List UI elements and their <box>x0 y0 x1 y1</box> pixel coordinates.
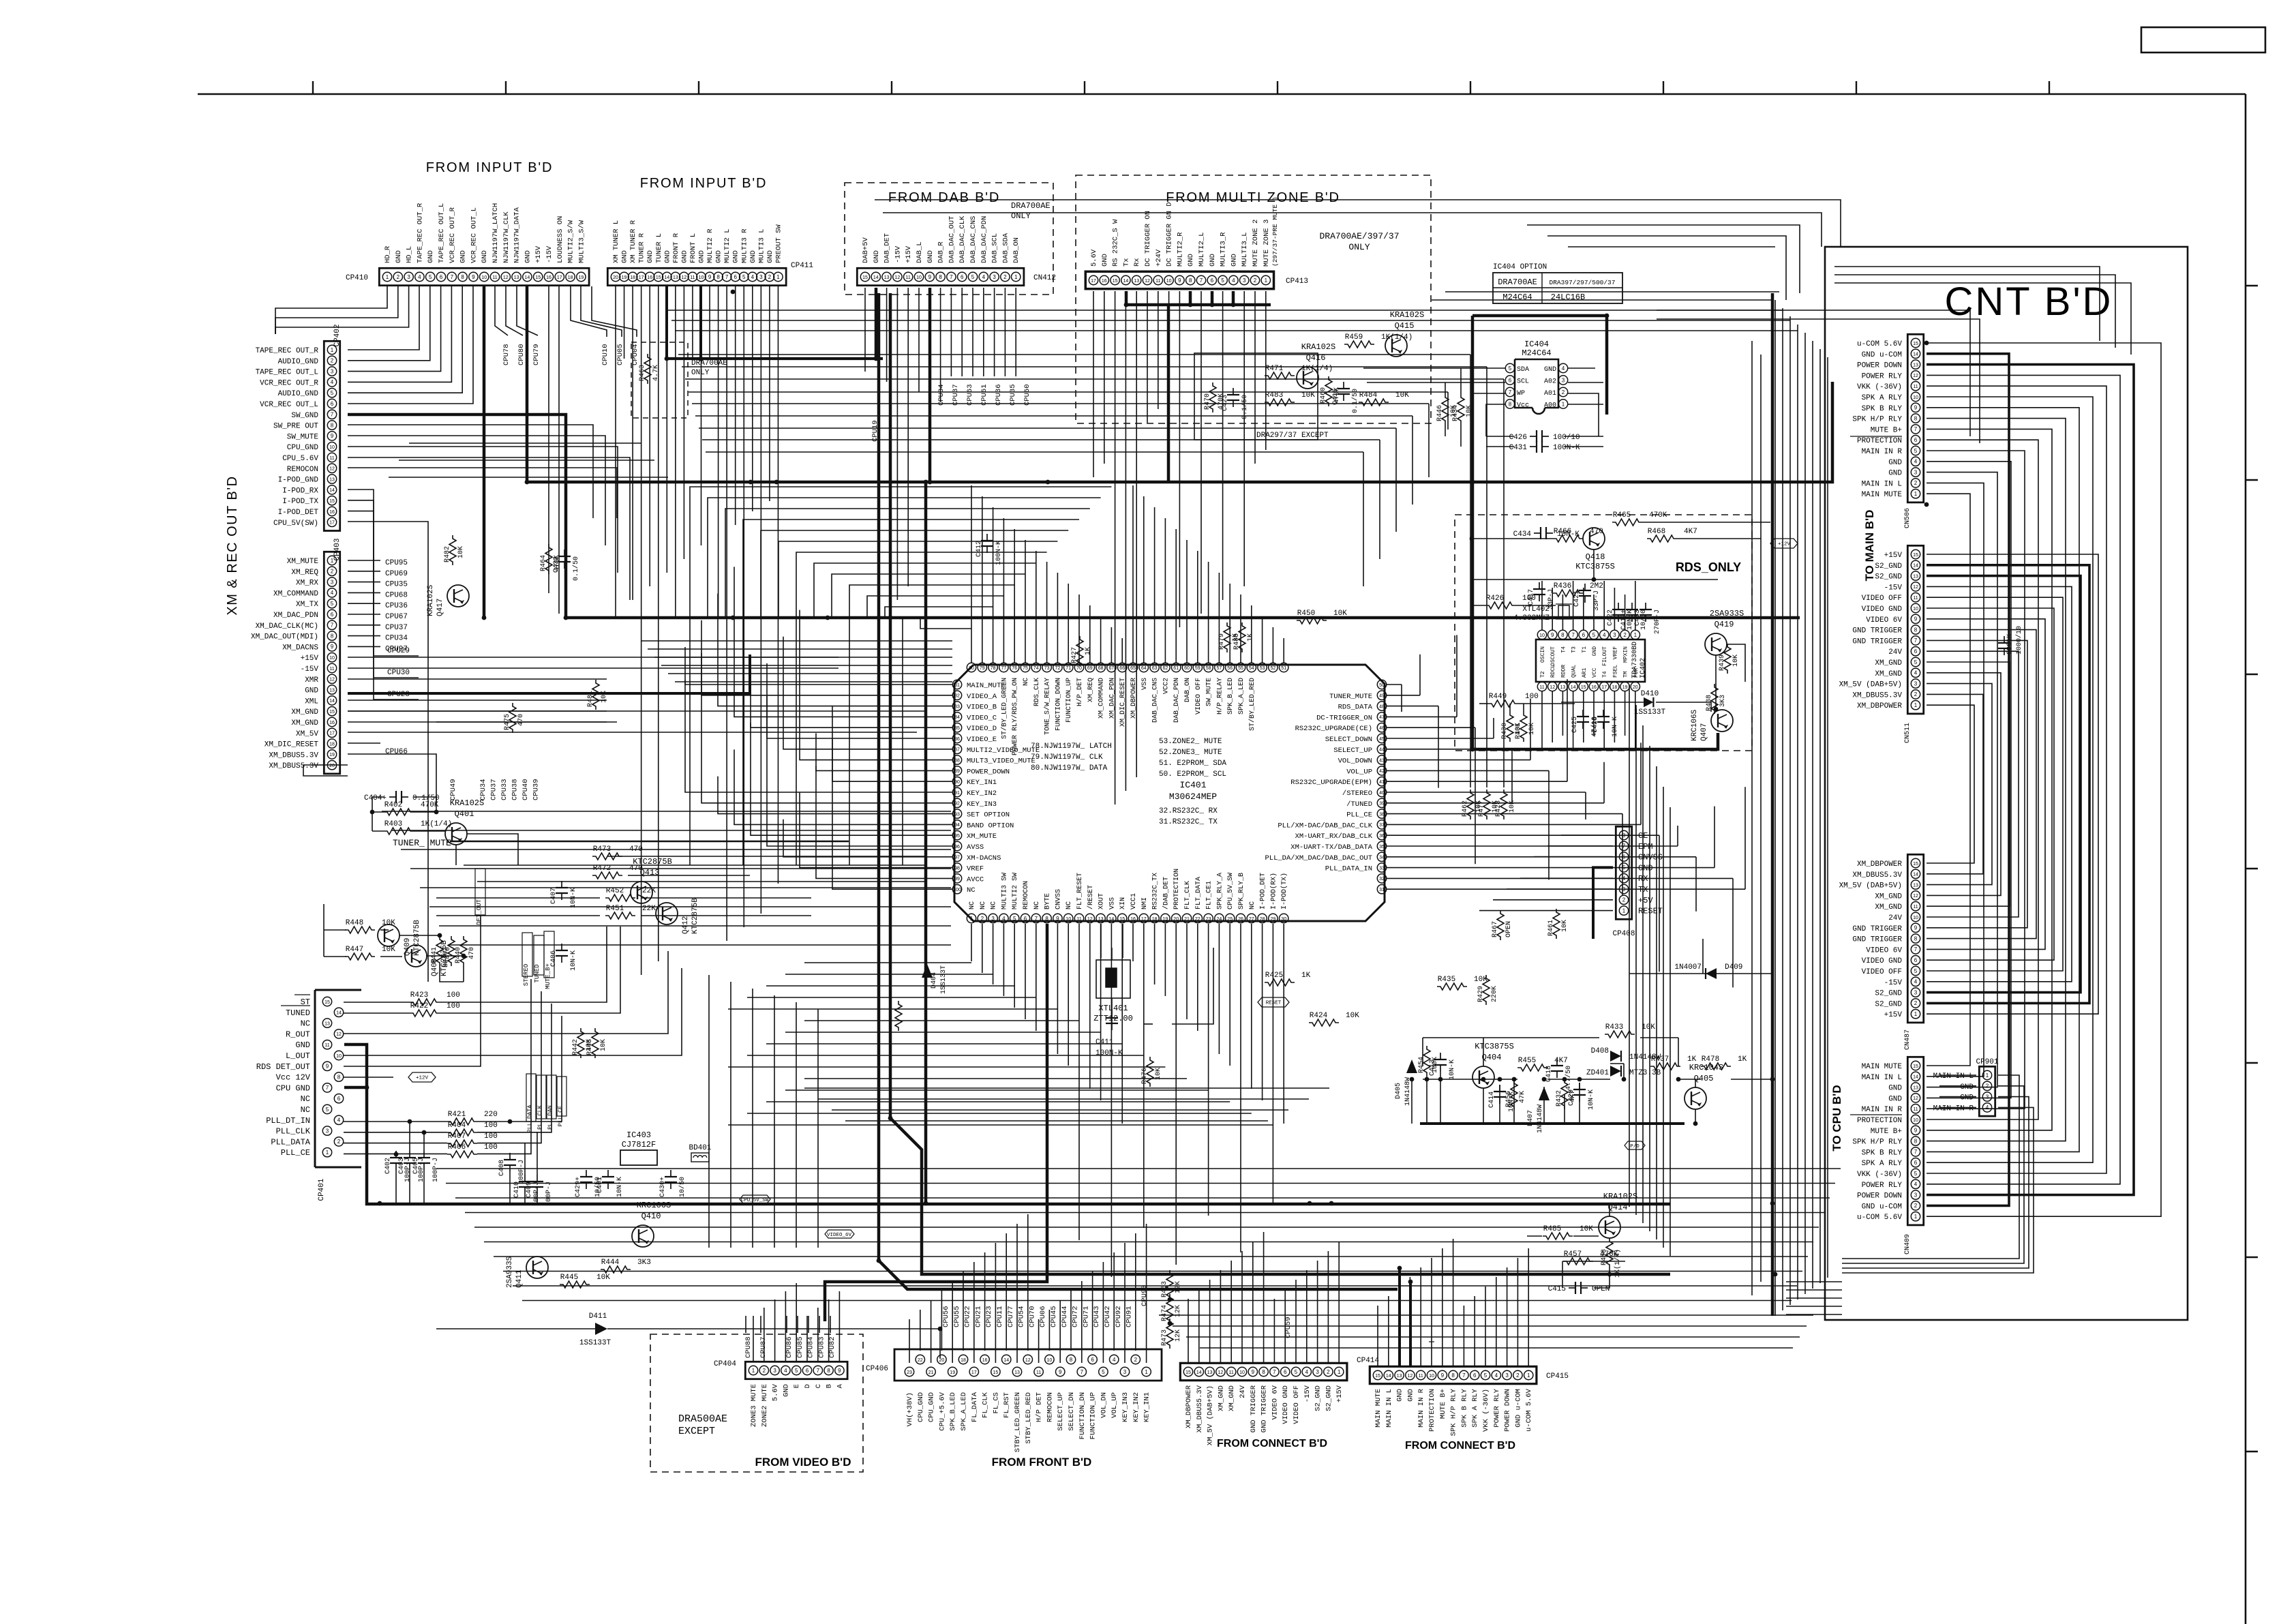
svg-text:MAIN MUTE: MAIN MUTE <box>1374 1389 1383 1428</box>
wire <box>1603 762 1605 803</box>
svg-text:T4: T4 <box>1560 646 1567 653</box>
wire <box>1445 382 1446 394</box>
svg-text:PLL_CLK: PLL_CLK <box>276 1127 311 1137</box>
wire <box>1657 319 1980 443</box>
svg-text:85: 85 <box>954 726 960 731</box>
svg-text:16: 16 <box>1130 917 1136 922</box>
junction <box>924 480 928 485</box>
svg-text:DRA500AE: DRA500AE <box>678 1413 727 1425</box>
wire <box>344 1153 447 1154</box>
svg-text:SPK B RLY: SPK B RLY <box>1862 1149 1903 1157</box>
svg-text:R447: R447 <box>346 946 363 954</box>
svg-text:VCR_REC OUT_L: VCR_REC OUT_L <box>260 401 318 409</box>
wire <box>1547 236 1786 300</box>
wire <box>348 625 380 626</box>
capacitor C411 100N-K <box>1111 1011 1113 1018</box>
svg-text:34: 34 <box>1379 856 1385 860</box>
svg-text:GND: GND <box>295 1040 310 1050</box>
svg-text:DAB_SCL: DAB_SCL <box>991 233 999 263</box>
svg-text:2: 2 <box>1327 1369 1330 1375</box>
svg-text:4: 4 <box>1986 1104 1989 1111</box>
svg-text:POWER DOWN: POWER DOWN <box>1857 1192 1902 1201</box>
svg-text:KEY_IN3: KEY_IN3 <box>967 800 997 809</box>
svg-text:D408: D408 <box>1591 1047 1609 1055</box>
svg-text:GND: GND <box>1888 1095 1902 1103</box>
svg-text:27: 27 <box>1249 917 1254 922</box>
svg-text:90: 90 <box>954 780 960 785</box>
resistor R406 100 <box>447 1151 477 1158</box>
wire <box>1493 899 1613 901</box>
svg-text:10: 10 <box>329 656 335 661</box>
svg-text:1: 1 <box>1145 1369 1148 1375</box>
wire <box>1014 529 1015 663</box>
wire <box>903 618 982 865</box>
svg-text:7: 7 <box>950 274 953 280</box>
svg-text:NC: NC <box>1066 901 1073 909</box>
wire <box>1200 1347 1793 1349</box>
transistor Q407 KRC106S <box>1711 710 1733 732</box>
wire <box>766 1101 1230 1102</box>
wire <box>1241 1251 1243 1363</box>
svg-text:10: 10 <box>1166 279 1172 284</box>
svg-text:FLT_RESET: FLT_RESET <box>1076 873 1084 909</box>
svg-text:C428: C428 <box>1592 717 1599 733</box>
svg-text:14: 14 <box>1913 352 1918 357</box>
wire <box>1751 341 1753 1295</box>
svg-text:FROM CONNECT B'D: FROM CONNECT B'D <box>1405 1440 1515 1452</box>
wire <box>348 646 380 647</box>
resistor R437 1K <box>1650 1063 1680 1070</box>
svg-text:VCC2: VCC2 <box>1162 678 1170 694</box>
svg-text:89: 89 <box>954 769 960 774</box>
wire <box>344 1121 447 1122</box>
svg-text:VCR_REC OUT_R: VCR_REC OUT_R <box>260 379 318 387</box>
svg-text:+24V: +24V <box>1155 249 1163 267</box>
svg-text:GND u-COM: GND u-COM <box>1514 1389 1522 1428</box>
svg-text:R482: R482 <box>444 546 451 562</box>
wire <box>1927 483 1984 1076</box>
svg-text:FLT_CLK: FLT_CLK <box>1184 881 1192 909</box>
wire <box>463 966 464 982</box>
svg-text:POWER RLY/RDS_PW_ON: POWER RLY/RDS_PW_ON <box>1011 678 1019 755</box>
svg-text:XM TUNER R: XM TUNER R <box>629 220 637 263</box>
wire <box>1399 1287 1400 1366</box>
svg-text:R467: R467 <box>1492 921 1499 937</box>
svg-text:15: 15 <box>1913 1064 1918 1069</box>
wire <box>324 929 346 931</box>
svg-text:A00: A00 <box>1544 402 1556 410</box>
svg-text:XM_DBPOWER: XM_DBPOWER <box>1857 702 1902 710</box>
wire <box>607 856 926 857</box>
wire <box>1552 691 1553 742</box>
svg-text:DC TRIGGER ON: DC TRIGGER ON <box>1144 211 1152 267</box>
wire <box>743 520 1079 865</box>
wire <box>436 1328 595 1329</box>
wire <box>436 721 617 723</box>
wire <box>477 1004 552 1132</box>
wire <box>348 500 419 678</box>
wire <box>828 1299 830 1362</box>
wire <box>1367 382 1505 383</box>
wire <box>708 498 1101 618</box>
wire <box>548 286 549 593</box>
svg-text:CP413: CP413 <box>1286 277 1308 286</box>
wire <box>685 378 1504 380</box>
svg-text:Q415: Q415 <box>1395 321 1415 331</box>
svg-text:KTC3875S: KTC3875S <box>1475 1042 1514 1051</box>
svg-text:CPU43: CPU43 <box>1093 1306 1101 1327</box>
svg-text:R485: R485 <box>1543 1225 1561 1233</box>
svg-text:R_OUT: R_OUT <box>286 1029 310 1039</box>
resistor R475 470 <box>509 703 516 733</box>
svg-text:SPK_RLY_A: SPK_RLY_A <box>1216 873 1224 909</box>
svg-text:10N-K: 10N-K <box>1588 1089 1595 1110</box>
svg-text:RS232C_TX: RS232C_TX <box>1152 873 1160 909</box>
wire <box>783 819 952 857</box>
wire <box>661 665 952 666</box>
svg-text:DAB_R: DAB_R <box>937 241 946 263</box>
svg-text:R476: R476 <box>1141 1068 1149 1084</box>
wire <box>1663 787 1664 1248</box>
svg-text:OPEN: OPEN <box>1592 1285 1610 1293</box>
svg-text:10: 10 <box>1913 607 1918 612</box>
wire <box>1211 291 1214 305</box>
svg-text:1: 1 <box>776 274 780 280</box>
wire <box>785 1089 1209 1091</box>
wire <box>1927 397 2093 1162</box>
wire <box>1004 288 1006 376</box>
svg-text:VIDEO OFF: VIDEO OFF <box>1862 595 1902 603</box>
svg-text:MAIN IN L: MAIN IN L <box>1385 1389 1393 1428</box>
svg-text:15: 15 <box>535 275 541 280</box>
resistor R463 4.7K <box>644 354 651 384</box>
wire <box>1927 494 1970 1066</box>
svg-text:CN409: CN409 <box>1904 1234 1912 1254</box>
capacitor C420 10N-K <box>1579 1083 1580 1089</box>
svg-text:5: 5 <box>1221 277 1224 284</box>
svg-text:GND: GND <box>1101 254 1109 267</box>
svg-text:4: 4 <box>1002 916 1006 922</box>
svg-text:R458: R458 <box>1601 1249 1608 1265</box>
svg-text:R478: R478 <box>1702 1055 1719 1064</box>
svg-text:GND: GND <box>1888 470 1902 478</box>
wire <box>1189 291 1192 305</box>
svg-text:19: 19 <box>622 275 627 280</box>
wire <box>1472 605 1485 606</box>
svg-text:FUNCTION_UP: FUNCTION_UP <box>1089 1392 1098 1439</box>
svg-text:5: 5 <box>971 274 975 280</box>
wire <box>348 286 473 404</box>
wire <box>1939 1107 1976 1108</box>
svg-text:CN412: CN412 <box>1033 274 1056 282</box>
svg-text:VIDEO_D: VIDEO_D <box>967 725 997 733</box>
wire <box>275 286 409 334</box>
junction <box>370 810 375 815</box>
svg-text:R425: R425 <box>1265 972 1283 980</box>
wire <box>1387 867 1715 869</box>
svg-text:C408: C408 <box>498 1160 506 1176</box>
svg-text:XM-DACNS: XM-DACNS <box>967 854 1001 862</box>
wire <box>1146 1224 1147 1363</box>
wire <box>1186 924 1188 1019</box>
wire <box>701 653 952 803</box>
wire <box>1834 283 2131 355</box>
wire <box>1445 291 1779 292</box>
wire <box>474 1227 1819 1228</box>
svg-text:OSCIN: OSCIN <box>1540 646 1546 663</box>
svg-text:3K3: 3K3 <box>1719 695 1727 707</box>
wire <box>1568 382 1603 383</box>
wire <box>1927 462 2011 1098</box>
wire <box>409 1122 410 1151</box>
wire <box>783 637 952 749</box>
wire <box>1472 538 1553 539</box>
svg-text:R430: R430 <box>1501 723 1509 739</box>
svg-text:2: 2 <box>1914 480 1918 486</box>
svg-text:3: 3 <box>1914 469 1918 475</box>
wire <box>1283 924 1284 1124</box>
resistor R439b <box>895 1001 902 1031</box>
wire <box>1387 738 1494 739</box>
svg-text:10: 10 <box>699 275 704 280</box>
svg-text:GND: GND <box>766 250 774 263</box>
wire <box>607 1329 940 1358</box>
svg-text:16: 16 <box>329 721 335 725</box>
wire <box>1419 655 1421 695</box>
svg-text:24: 24 <box>1217 917 1222 922</box>
wire <box>730 982 731 1248</box>
wire <box>1760 355 1762 1282</box>
svg-text:FROM INPUT B'D: FROM INPUT B'D <box>640 176 767 191</box>
svg-text:TUNED: TUNED <box>534 964 541 982</box>
border tick <box>1856 81 1857 94</box>
svg-text:12: 12 <box>329 467 335 472</box>
transistor Q408 KTC2875B <box>405 945 427 967</box>
wire <box>785 1291 786 1362</box>
svg-text:CPU45: CPU45 <box>1050 1306 1058 1327</box>
wire <box>1447 392 1449 430</box>
wire <box>1565 446 1603 447</box>
svg-text:XM_DBUS5.3V: XM_DBUS5.3V <box>269 762 318 770</box>
svg-text:NC: NC <box>1249 901 1256 909</box>
svg-text:13: 13 <box>324 1021 330 1026</box>
wire <box>766 985 1014 987</box>
svg-text:100: 100 <box>484 1122 498 1130</box>
wire <box>1460 368 1462 394</box>
svg-text:SPK A RLY: SPK A RLY <box>1471 1388 1479 1427</box>
wire <box>690 487 1111 865</box>
wire <box>372 797 373 831</box>
svg-text:53: 53 <box>1260 666 1265 671</box>
wire <box>1179 291 1180 627</box>
svg-text:C420: C420 <box>1568 1089 1575 1106</box>
wire <box>1479 703 1488 704</box>
svg-text:VIDEO_E: VIDEO_E <box>967 736 997 744</box>
junction <box>1308 1201 1312 1206</box>
junction <box>1408 1280 1413 1284</box>
wire <box>348 286 430 361</box>
svg-text:XM_GND: XM_GND <box>1875 892 1902 901</box>
wire <box>410 868 951 869</box>
svg-text:8: 8 <box>337 1074 341 1080</box>
wire <box>1440 1072 1441 1124</box>
svg-text:VH(+38V): VH(+38V) <box>906 1392 914 1426</box>
svg-text:98: 98 <box>954 866 960 871</box>
op-amp IC401 outline <box>954 665 1385 921</box>
wire <box>1593 867 1613 939</box>
wire <box>1474 1296 1475 1366</box>
svg-text:10: 10 <box>481 275 487 280</box>
capacitor C413 10N-K <box>1440 1053 1441 1059</box>
svg-text:Q418: Q418 <box>1586 552 1605 562</box>
svg-text:10K: 10K <box>1561 920 1569 932</box>
svg-text:AUDIO_GND: AUDIO_GND <box>278 358 319 366</box>
svg-text:5: 5 <box>1914 968 1918 974</box>
wire <box>1567 679 1568 781</box>
junction <box>1398 1266 1402 1271</box>
svg-text:SCL: SCL <box>1517 378 1529 386</box>
svg-text:CP406: CP406 <box>866 1365 888 1373</box>
wire <box>941 1291 942 1351</box>
svg-text:GND: GND <box>427 250 435 263</box>
svg-text:C416: C416 <box>1332 389 1340 405</box>
svg-text:6: 6 <box>1284 1369 1287 1375</box>
svg-text:A02: A02 <box>1544 378 1556 386</box>
svg-text:16: 16 <box>1591 685 1597 690</box>
svg-text:12: 12 <box>1408 1374 1413 1379</box>
resistor R468 4K7 <box>1647 535 1677 542</box>
svg-text:FUNCTION_UP: FUNCTION_UP <box>1066 678 1073 723</box>
svg-text:DRA700AE: DRA700AE <box>1498 277 1537 287</box>
capacitor C433 270P-J <box>1645 603 1646 610</box>
resistor R485 10K <box>1543 1233 1573 1239</box>
svg-text:1: 1 <box>752 1368 755 1374</box>
wire <box>1625 595 1626 630</box>
svg-text:56: 56 <box>1227 666 1233 671</box>
svg-text:PLL_CE: PLL_CE <box>1346 811 1372 819</box>
wire <box>1472 393 1505 394</box>
wire <box>1564 1094 1565 1124</box>
resistor R484 10K <box>1359 399 1389 406</box>
wire <box>1677 538 1761 539</box>
svg-text:VIDEO_B: VIDEO_B <box>967 704 997 712</box>
wire <box>918 288 920 392</box>
svg-text:VCC1: VCC1 <box>1130 893 1138 909</box>
wire <box>1702 939 1704 974</box>
dashed box R463 DRA700AE ONLY <box>631 342 688 418</box>
svg-text:CPU84: CPU84 <box>807 1336 815 1358</box>
wire <box>372 811 384 813</box>
wire <box>1363 452 1364 586</box>
svg-text:+15V: +15V <box>1335 1385 1344 1402</box>
svg-text:AVSS: AVSS <box>967 843 984 852</box>
wire <box>1842 1097 2029 1268</box>
wire <box>348 286 451 382</box>
wire <box>767 663 952 738</box>
wire <box>745 1316 746 1333</box>
svg-text:-15V: -15V <box>301 665 319 674</box>
svg-text:20: 20 <box>329 764 335 768</box>
transistor Q416 KRA102S <box>1297 367 1318 389</box>
wire <box>1939 1074 1976 1076</box>
wire <box>1583 588 1584 630</box>
wire <box>1463 1306 1464 1366</box>
wire <box>777 286 779 884</box>
resistor R461 10K <box>1553 909 1560 939</box>
net flag RESET <box>1258 997 1289 1007</box>
svg-text:CPU71: CPU71 <box>1082 1306 1090 1327</box>
svg-text:XM_5V: XM_5V <box>296 730 318 738</box>
svg-text:CPU_GND: CPU_GND <box>928 1392 936 1422</box>
wire <box>440 927 607 1002</box>
wire <box>1232 291 1235 305</box>
wire <box>1527 225 1800 293</box>
svg-text:RS 232C_S W: RS 232C_S W <box>1112 219 1120 267</box>
wire <box>1125 291 1126 791</box>
wire <box>1786 1314 1842 1315</box>
wire <box>1438 706 1439 788</box>
svg-text:R441: R441 <box>431 947 438 963</box>
svg-text:24V: 24V <box>1239 1385 1247 1398</box>
svg-text:RS232C_UPGRADE(EPM): RS232C_UPGRADE(EPM) <box>1290 779 1372 787</box>
wire <box>344 1012 410 1014</box>
svg-text:54: 54 <box>1249 666 1254 671</box>
border tick <box>891 81 892 94</box>
svg-text:9: 9 <box>1551 632 1554 638</box>
svg-text:6: 6 <box>1509 377 1512 383</box>
wire <box>1635 705 1637 1215</box>
wire <box>1568 246 1775 247</box>
wire <box>920 1310 921 1351</box>
wire <box>1927 662 2010 906</box>
svg-text:Vcc: Vcc <box>1517 402 1529 410</box>
wire <box>348 286 419 350</box>
wire <box>1927 684 1992 885</box>
wire <box>641 897 811 899</box>
connector CP413 <box>1085 271 1273 288</box>
wire <box>1927 586 2072 981</box>
svg-text:GND: GND <box>1544 366 1556 374</box>
wire <box>1387 695 1420 696</box>
svg-text:CP408: CP408 <box>1612 930 1635 938</box>
wire <box>1387 792 1586 793</box>
wire <box>1677 826 1678 846</box>
wire <box>819 1316 820 1333</box>
svg-text:Q405: Q405 <box>1694 1074 1714 1083</box>
svg-text:(297/37-PRE MUTE ): (297/37-PRE MUTE ) <box>1271 196 1279 267</box>
junction <box>1046 480 1051 485</box>
svg-text:9: 9 <box>1914 925 1918 931</box>
svg-text:/STEREO: /STEREO <box>1342 790 1372 798</box>
wire <box>1573 581 1574 630</box>
wire <box>1927 619 2045 950</box>
svg-text:11: 11 <box>329 456 334 461</box>
wire <box>760 1316 761 1333</box>
svg-text:99: 99 <box>954 877 960 882</box>
connector CN511 <box>1907 545 1923 714</box>
resistor R446 10K <box>1442 394 1449 424</box>
wire <box>808 1316 809 1333</box>
svg-text:GND: GND <box>1888 459 1902 467</box>
svg-text:6: 6 <box>806 1368 809 1374</box>
svg-text:BD401: BD401 <box>689 1144 711 1152</box>
svg-text:/RESET: /RESET <box>1087 885 1095 909</box>
wire <box>1609 1203 1610 1216</box>
wire <box>1472 316 1607 415</box>
wire <box>1642 725 1644 1223</box>
svg-text:6: 6 <box>331 612 334 618</box>
title block box <box>2141 27 2265 52</box>
